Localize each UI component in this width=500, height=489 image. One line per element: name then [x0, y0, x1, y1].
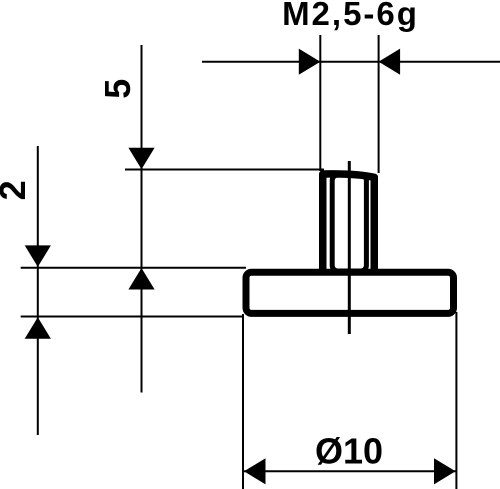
- dimension 5 vertical line: [141, 45, 143, 393]
- label M2,5-6g: [282, 0, 419, 32]
- top dimension line (M2,5-6g): [202, 61, 500, 63]
- svg-text:2: 2: [0, 180, 33, 200]
- arrow right-pointing at disc right (Ø10): [434, 458, 456, 484]
- thread inner rounded rectangle: [332, 175, 366, 271]
- arrow left-pointing at right thread line: [379, 49, 401, 75]
- svg-text:Ø10: Ø10: [315, 431, 383, 472]
- arrow left-pointing at disc left (Ø10): [244, 458, 266, 484]
- centerline: [348, 161, 351, 334]
- dimension text 2: [0, 180, 33, 200]
- svg-text:M2,5-6g: M2,5-6g: [282, 0, 419, 32]
- arrow up at disc top (dim 5): [128, 268, 154, 290]
- svg-text:5: 5: [97, 79, 138, 99]
- arrow down at disc top (dim 2): [25, 245, 51, 267]
- dimension text Ø10: [315, 431, 383, 472]
- stem-top extension line: [125, 169, 324, 171]
- dimension 2 vertical line: [37, 146, 39, 435]
- arrow up at disc bottom (dim 2): [25, 317, 51, 339]
- arrow down at stem top (dim 5): [128, 148, 154, 170]
- extension line left of thread: [319, 35, 321, 171]
- dimension text 5: [97, 79, 138, 99]
- extension line right of thread: [378, 35, 380, 173]
- disc-top extension line: [21, 267, 246, 269]
- disc body (Ø10 plate): [246, 272, 454, 313]
- stem body (threaded shank outline): [323, 174, 375, 274]
- Ø10 left extension line: [242, 314, 244, 489]
- bottom dimension line (Ø10): [243, 470, 456, 472]
- arrow right-pointing at left thread line: [299, 49, 321, 75]
- Ø10 right extension line: [455, 312, 457, 489]
- disc-bottom extension line: [21, 316, 243, 318]
